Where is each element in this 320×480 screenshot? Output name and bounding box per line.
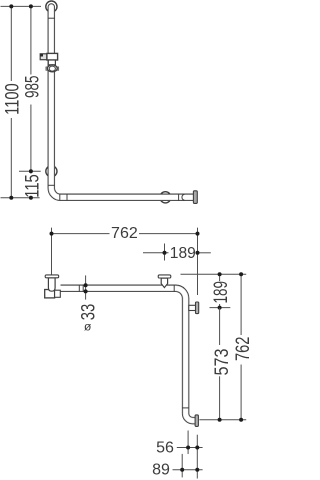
- svg-text:189: 189: [170, 245, 196, 262]
- extension line right (762 top / 189): [197, 228, 199, 295]
- dimension line 189 right: [218, 272, 222, 309]
- tube joint line above bottom end: [182, 407, 188, 409]
- shower head holder slider: knob ring: [46, 65, 59, 72]
- dimension label 573: [211, 349, 233, 376]
- dimension label 89: [152, 462, 170, 479]
- dimension label 56: [156, 440, 174, 457]
- dimension line diameter 33: [84, 275, 88, 299]
- dimension line 762 right: [239, 272, 243, 422]
- right leg wall mount stem (side): [189, 305, 196, 310]
- shower head holder slider: main block: [47, 53, 58, 60]
- dimension label 189 right: [210, 281, 232, 304]
- svg-text:33: 33: [78, 304, 100, 321]
- svg-text:985: 985: [21, 75, 43, 98]
- dimension line 115: [29, 196, 33, 200]
- dimension label 762 top: [111, 225, 138, 242]
- L-shaped grab rail tube (top view, outline + body): [61, 288, 196, 420]
- end wall flange circle on horizontal rail: [160, 192, 171, 203]
- tube joint lines after bend: [60, 194, 67, 200]
- extension line mid mount (189 top): [164, 244, 166, 261]
- left corner block: [45, 290, 61, 298]
- dimension label 1100: [2, 83, 24, 115]
- dimension line 1100: [9, 4, 13, 199]
- left wall plate cap (T top): [45, 275, 59, 278]
- tube joint lines near right end: [179, 194, 185, 200]
- dimension line 89: [173, 468, 203, 472]
- wall reference line top right: [181, 273, 247, 275]
- svg-text:ø: ø: [84, 320, 92, 334]
- dimension label 762 right: [232, 337, 254, 362]
- shower head holder slider: lower block: [48, 60, 55, 65]
- dimension label 115: [21, 174, 43, 198]
- L-shaped grab rail tube (outline + body): [51, 7, 193, 197]
- dimension line 573: [218, 308, 222, 422]
- dimension line 762 top: [50, 232, 200, 236]
- extension line left (762 top): [51, 228, 53, 275]
- bottom end wall plate cap (gray): [195, 415, 198, 427]
- wall reference line bottom right: [199, 419, 246, 421]
- svg-text:189: 189: [210, 281, 232, 304]
- dimension line 189 top: [143, 251, 211, 255]
- dimension line 56: [177, 446, 203, 450]
- tube joint lines after left corner block: [79, 285, 83, 291]
- tube joint line below top flange: [48, 17, 54, 19]
- mid wall plate cap: [158, 275, 171, 278]
- tick line at right mount (189/573 split): [210, 307, 231, 309]
- extension line A (56 left): [187, 431, 189, 455]
- dimension label 985: [21, 75, 43, 98]
- extension line B (56/89 right): [196, 435, 198, 479]
- svg-text:573: 573: [211, 349, 233, 376]
- top wall flange circle: [46, 1, 57, 12]
- mid wall flange circle: [46, 166, 57, 177]
- svg-text:762: 762: [232, 337, 251, 362]
- dimension tick line mid (985/115 split): [19, 170, 41, 172]
- right end wall plate cap: [193, 191, 197, 204]
- tube joint line before right bend: [173, 285, 175, 291]
- dimension tick line top: [1, 5, 42, 7]
- left shower-rail stem (top view): [48, 278, 55, 291]
- dimension tick line bottom: [1, 197, 40, 199]
- svg-text:762: 762: [111, 225, 138, 242]
- right leg wall plate cap (gray): [196, 302, 199, 314]
- shower head holder slider: left arm: [40, 54, 47, 60]
- mid wall mount stem (top view): [161, 278, 167, 288]
- svg-text:56: 56: [156, 440, 174, 457]
- dimension label diameter 33: [78, 304, 100, 334]
- svg-text:89: 89: [152, 462, 170, 479]
- dimension label 189 top: [170, 245, 196, 262]
- svg-text:115: 115: [21, 174, 43, 198]
- dimension line 985: [29, 4, 33, 173]
- tube joint line above bend: [48, 184, 54, 186]
- extension line C (89 left): [181, 454, 183, 478]
